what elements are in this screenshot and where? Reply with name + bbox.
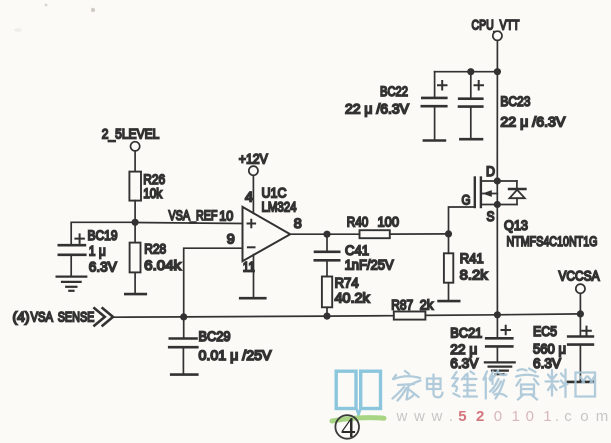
diode Q13 body diode: [509, 181, 526, 205]
op-amp U1C: [243, 184, 297, 261]
svg-text:1nF/25V: 1nF/25V: [345, 257, 395, 273]
svg-text:0: 0: [494, 408, 502, 425]
node BC23 tap: [467, 68, 474, 75]
pin 10 wire (VSA_REF to + input): [135, 223, 242, 224]
resistor R87: [391, 296, 497, 319]
svg-text:VSA_REF: VSA_REF: [169, 207, 218, 223]
node Q13 drain: [494, 177, 501, 184]
ground BC29: [171, 373, 197, 376]
svg-text:R28: R28: [144, 240, 166, 256]
svg-text:22 μ /6.3V: 22 μ /6.3V: [500, 113, 566, 129]
wire node to R28: [134, 222, 136, 242]
terminal 2_5LEVEL: [102, 126, 160, 151]
wire R26 to node: [134, 201, 136, 223]
resistor R28: [130, 240, 183, 273]
node VCCSA / EC5 tap: [577, 310, 584, 317]
capacitor BC19: [59, 227, 118, 276]
svg-text:1: 1: [512, 408, 520, 425]
svg-text:4: 4: [341, 412, 356, 443]
resistor R40: [327, 213, 449, 238]
svg-text:(4): (4): [13, 309, 30, 325]
svg-text:c: c: [564, 408, 572, 425]
svg-text:100: 100: [378, 213, 400, 229]
node Q13 source / BC21 tap: [494, 311, 501, 318]
watermark group (decorative): [332, 369, 608, 443]
power terminal +12V: [239, 151, 269, 176]
capacitor BC23: [459, 72, 566, 139]
capacitor BC22: [345, 72, 447, 141]
wire CPU_VTT vertical to drain: [496, 40, 498, 181]
svg-text:LM324: LM324: [262, 199, 297, 215]
pin 8 output wire: [290, 233, 327, 235]
svg-text:o: o: [580, 408, 588, 425]
svg-text:D: D: [486, 163, 495, 179]
svg-text:w: w: [413, 408, 425, 425]
svg-text:6.3V: 6.3V: [89, 258, 118, 274]
svg-text:R87: R87: [391, 296, 413, 312]
wire node to BC19: [71, 222, 135, 245]
svg-text:G: G: [462, 192, 471, 208]
svg-text:BC22: BC22: [380, 83, 408, 99]
svg-text:S: S: [487, 208, 495, 224]
ground EC5: [568, 381, 593, 384]
svg-text:BC23: BC23: [500, 93, 530, 109]
svg-text:0.01 μ /25V: 0.01 μ /25V: [199, 347, 273, 363]
ground BC21: [485, 362, 515, 374]
svg-text:Q13: Q13: [504, 217, 528, 233]
ground R28: [125, 293, 146, 296]
svg-text:40.2k: 40.2k: [335, 290, 371, 306]
svg-text:2: 2: [476, 408, 484, 425]
svg-text:.: .: [555, 408, 559, 425]
svg-text:10k: 10k: [143, 185, 163, 201]
wire VCCSA to line: [579, 293, 581, 314]
ground R41: [439, 300, 460, 303]
svg-text:6.3V: 6.3V: [533, 355, 562, 371]
node pin9/BC29 tap: [180, 313, 187, 320]
svg-text:6.3V: 6.3V: [450, 355, 479, 371]
svg-text:C41: C41: [345, 242, 369, 258]
svg-text:4: 4: [245, 188, 253, 204]
svg-text:560 μ: 560 μ: [533, 341, 566, 357]
svg-text:R41: R41: [460, 250, 484, 266]
svg-text:SENSE: SENSE: [58, 309, 95, 325]
wire cap bus horizontal: [435, 71, 498, 73]
svg-text:R74: R74: [335, 274, 359, 290]
power terminal CPU_VTT: [472, 17, 520, 41]
svg-text:w: w: [396, 408, 408, 425]
resistor R26: [129, 171, 165, 201]
pin 9 wire (- input): [184, 248, 243, 317]
svg-text:CPU_VTT: CPU_VTT: [472, 17, 520, 33]
power terminal VCCSA: [559, 268, 601, 294]
wire +12V to op-amp pin 4: [252, 175, 254, 213]
svg-text:EC5: EC5: [533, 323, 557, 339]
wire R28 to ground: [134, 272, 136, 294]
svg-text:11: 11: [243, 259, 255, 275]
svg-text:0: 0: [526, 408, 534, 425]
svg-text:VCCSA: VCCSA: [559, 268, 601, 284]
svg-text:2k: 2k: [420, 296, 434, 312]
node R74 tap: [323, 313, 330, 320]
svg-text:8.2k: 8.2k: [460, 267, 489, 283]
ground op-amp pin 11: [240, 297, 265, 300]
svg-text:.: .: [449, 408, 453, 425]
node op-amp output: [323, 231, 330, 238]
ground BC19 earth symbol: [57, 277, 87, 291]
pin 11 wire to ground: [253, 255, 255, 298]
svg-text:22 μ /6.3V: 22 μ /6.3V: [345, 101, 410, 117]
svg-text:m: m: [596, 408, 609, 425]
svg-text:BC21: BC21: [450, 325, 482, 341]
capacitor BC29: [169, 317, 272, 374]
svg-text:10: 10: [219, 207, 233, 223]
node gate drive: [445, 230, 452, 237]
svg-text:1 μ: 1 μ: [89, 242, 106, 258]
ground BC23: [460, 138, 482, 141]
capacitor C41: [315, 234, 394, 276]
svg-text:1: 1: [543, 408, 551, 425]
capacitor BC21: [450, 315, 512, 371]
wire 2_5LEVEL to R26: [134, 151, 136, 172]
svg-text:NTMFS4C10NT1G: NTMFS4C10NT1G: [507, 233, 598, 249]
wire VSA SENSE main line: [113, 316, 394, 318]
net label (4) VSA SENSE input: [13, 308, 114, 325]
svg-text:2_5LEVEL: 2_5LEVEL: [102, 126, 160, 142]
resistor R74: [322, 274, 371, 316]
svg-text:+12V: +12V: [239, 151, 269, 167]
capacitor EC5: [533, 314, 593, 382]
ground BC22: [424, 139, 445, 142]
svg-text:8: 8: [294, 215, 302, 231]
node VSA_REF: [132, 219, 139, 226]
svg-text:BC19: BC19: [88, 227, 118, 243]
node on CPU_VTT line at cap bus: [494, 68, 501, 75]
wire sense line right section: [497, 313, 580, 316]
svg-text:9: 9: [227, 231, 235, 247]
transistor Q13 NTMFS4C10NT1G: [449, 163, 598, 315]
svg-text:BC29: BC29: [199, 328, 231, 344]
svg-text:6.04k: 6.04k: [144, 257, 182, 273]
svg-text:5: 5: [458, 408, 466, 425]
resistor R41: [444, 234, 489, 301]
svg-text:VSA: VSA: [31, 309, 54, 325]
svg-text:w: w: [431, 408, 443, 425]
svg-text:R40: R40: [347, 213, 369, 229]
node Q13 source: [494, 201, 501, 208]
